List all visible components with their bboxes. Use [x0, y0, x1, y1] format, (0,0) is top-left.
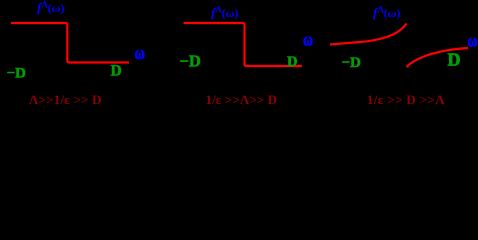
svg-text:ω: ω [468, 31, 478, 51]
svg-text:−D: −D [7, 66, 27, 82]
panel 1 step curve [11, 23, 129, 63]
svg-text:1/ε >> D >>Λ: 1/ε >> D >>Λ [367, 92, 445, 106]
svg-text:D: D [287, 54, 297, 70]
svg-text:−D: −D [342, 55, 362, 71]
svg-text:ω: ω [303, 30, 313, 50]
svg-text:D: D [448, 50, 461, 70]
panel 3 right branch curve [407, 48, 469, 67]
svg-text:D: D [111, 63, 122, 80]
svg-text:Λ>>1/ε >> D: Λ>>1/ε >> D [29, 92, 102, 106]
svg-text:fΛ(ω): fΛ(ω) [37, 0, 64, 15]
panel 3 left branch curve [330, 24, 407, 45]
panel 2 step curve [184, 23, 303, 66]
svg-text:ω: ω [135, 43, 146, 64]
svg-text:fΛ(ω): fΛ(ω) [373, 5, 400, 21]
svg-text:−D: −D [180, 52, 201, 71]
svg-text:1/ε >>Λ>> D: 1/ε >>Λ>> D [206, 92, 278, 106]
svg-text:fΛ(ω): fΛ(ω) [211, 5, 238, 21]
